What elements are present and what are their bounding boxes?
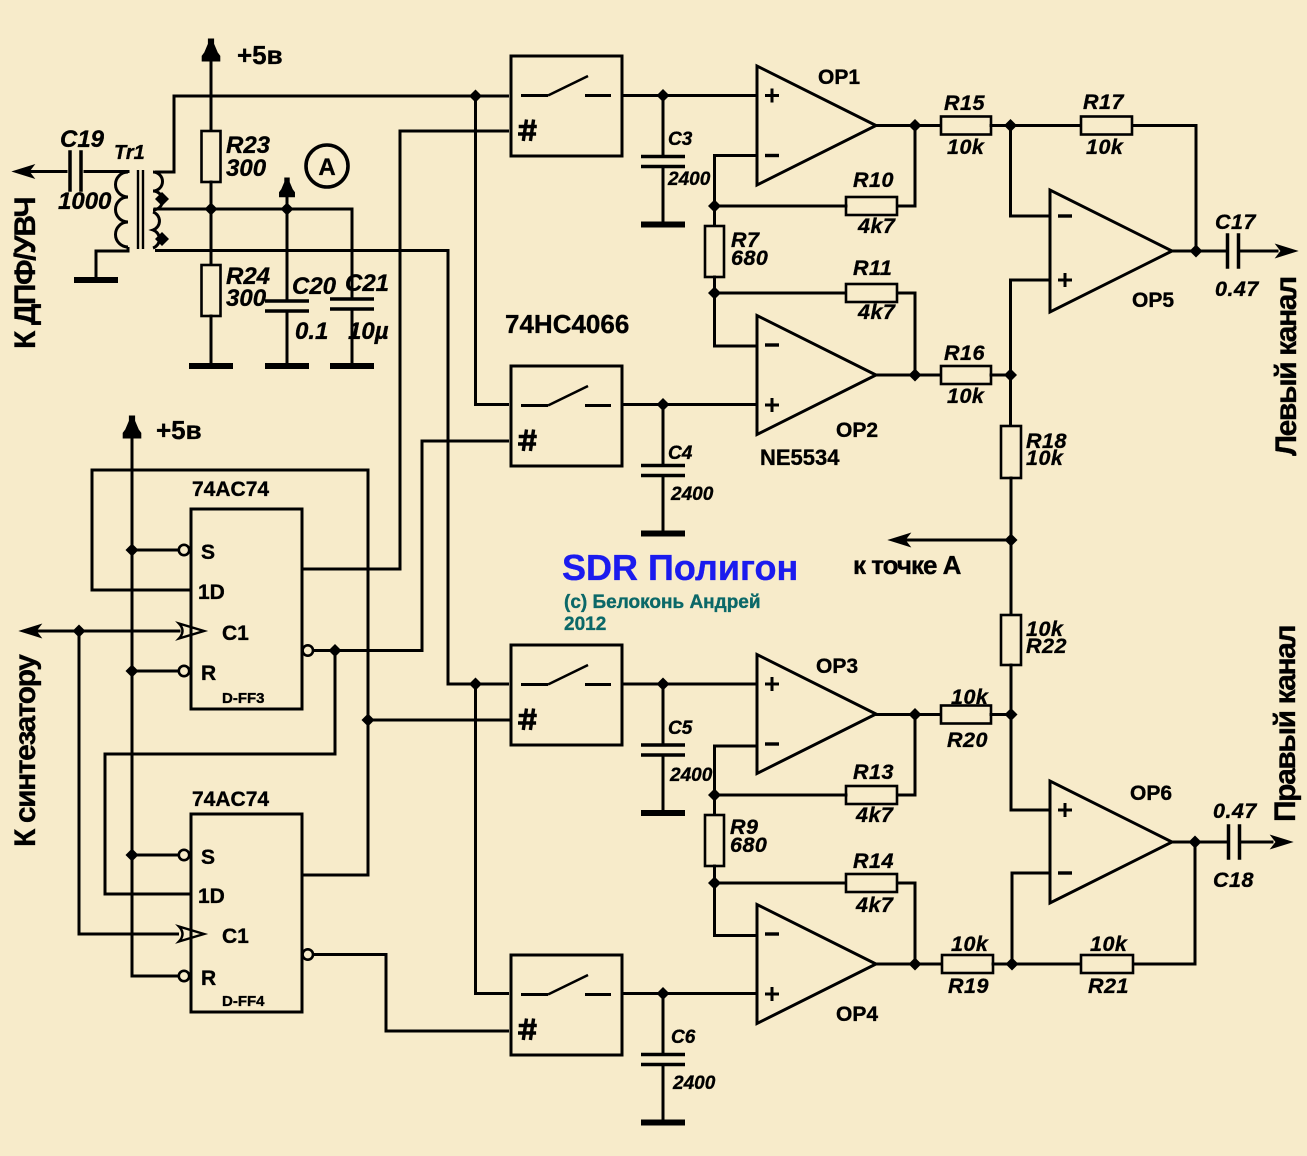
svg-text:К ДПФ/УВЧ: К ДПФ/УВЧ bbox=[9, 197, 42, 349]
node OP3 out bbox=[909, 708, 922, 721]
node OP4 out bbox=[909, 958, 922, 971]
svg-text:680: 680 bbox=[731, 246, 768, 270]
svg-text:R22: R22 bbox=[1026, 634, 1067, 658]
node OP1 out bbox=[909, 119, 922, 132]
wire switch out row C4 bbox=[622, 403, 756, 406]
svg-text:OP1: OP1 bbox=[818, 66, 860, 89]
resistor R21 bbox=[1081, 842, 1195, 973]
node C6 bbox=[657, 987, 670, 1000]
resistor R24 bbox=[202, 265, 221, 316]
svg-text:10k: 10k bbox=[1090, 932, 1128, 956]
pin # control S2 bbox=[518, 430, 537, 452]
op-amp OP1 bbox=[757, 66, 876, 185]
wire FF3 Qbar to switch2 control bbox=[313, 441, 509, 651]
node clock split bbox=[73, 625, 86, 638]
op-amp OP5 bbox=[1050, 190, 1172, 312]
svg-text:0.47: 0.47 bbox=[1215, 277, 1259, 301]
svg-text:10k: 10k bbox=[947, 135, 985, 159]
ground C6 bbox=[641, 1120, 685, 1126]
resistor R18 bbox=[1001, 375, 1021, 540]
svg-text:D-FF3: D-FF3 bbox=[222, 690, 265, 707]
resistor R19 bbox=[942, 955, 1081, 973]
svg-text:S: S bbox=[201, 541, 215, 564]
svg-text:Tr1: Tr1 bbox=[114, 142, 145, 164]
port Правый канал arrow bbox=[1271, 836, 1292, 849]
resistor R23 bbox=[202, 131, 221, 182]
op-amp OP4 bbox=[757, 905, 876, 1024]
capacitor C3 bbox=[641, 96, 685, 222]
pin C1 FF4 dynamic input bbox=[179, 925, 249, 948]
wire OP5 output bbox=[1172, 250, 1226, 253]
resistor R20 bbox=[941, 706, 1011, 724]
wire FF4 Q loop to FF3 1D bbox=[92, 470, 368, 875]
wire switch out row C6 bbox=[622, 992, 756, 995]
wire C19 to Tr1 primary bbox=[85, 170, 128, 173]
svg-text:R: R bbox=[201, 662, 216, 685]
wire к точке А bbox=[902, 539, 1011, 542]
svg-text:4k7: 4k7 bbox=[857, 300, 896, 324]
wire to OP2 inverting input bbox=[715, 293, 757, 346]
transformer Tr1 bbox=[116, 170, 163, 249]
capacitor C20 bbox=[265, 209, 309, 363]
op-amp OP3 bbox=[757, 655, 876, 774]
port Левый канал arrow bbox=[1276, 245, 1297, 258]
resistor R22 bbox=[1001, 540, 1021, 715]
wire input to C19 bbox=[26, 170, 66, 173]
svg-text:C1: C1 bbox=[222, 925, 249, 948]
wire to switch 4 bbox=[476, 684, 510, 994]
node C5 bbox=[657, 678, 670, 691]
wire Tr1 secondary bottom to switches bbox=[155, 251, 509, 685]
node R7 top bbox=[708, 200, 721, 213]
wire OP4 output bbox=[876, 963, 941, 966]
polarity dot secondary bottom bbox=[155, 232, 169, 246]
pin R FF3 bbox=[132, 662, 216, 685]
ground C4 bbox=[641, 531, 685, 537]
svg-text:OP5: OP5 bbox=[1132, 289, 1174, 312]
svg-text:SDR Полигон: SDR Полигон bbox=[562, 547, 798, 588]
wire to OP5 non-inverting input bbox=[1011, 280, 1050, 375]
wire switch out row C5 bbox=[622, 683, 756, 686]
svg-text:300: 300 bbox=[226, 155, 267, 182]
node A marker arrow bbox=[280, 178, 295, 209]
wire OP6 output bbox=[1172, 841, 1227, 844]
resistor R16 bbox=[941, 366, 1011, 384]
node R20 right bbox=[1005, 708, 1018, 721]
svg-text:2400: 2400 bbox=[667, 169, 711, 190]
node C20 point A bbox=[281, 203, 294, 216]
svg-text:0.1: 0.1 bbox=[295, 318, 328, 345]
svg-text:1D: 1D bbox=[198, 885, 225, 908]
svg-text:C5: C5 bbox=[668, 718, 693, 739]
pin R FF4 bbox=[132, 967, 216, 990]
svg-text:10k: 10k bbox=[1086, 135, 1124, 159]
port К ДПФ/УВЧ arrow bbox=[13, 165, 34, 178]
svg-text:+5в: +5в bbox=[237, 40, 283, 70]
node A circle bbox=[306, 145, 348, 187]
svg-text:C6: C6 bbox=[671, 1027, 696, 1048]
svg-text:R21: R21 bbox=[1088, 974, 1129, 998]
svg-text:К синтезатору: К синтезатору bbox=[9, 654, 42, 847]
svg-text:2400: 2400 bbox=[672, 1073, 716, 1094]
svg-text:(c) Белоконь Андрей: (c) Белоконь Андрей bbox=[564, 592, 761, 613]
flip-flop U2 D-FF4 74AC74 bbox=[191, 814, 302, 1012]
svg-text:R11: R11 bbox=[853, 256, 892, 280]
pin # control S1 bbox=[518, 120, 537, 142]
wire Tr1 secondary top to switches bbox=[155, 96, 509, 172]
wire OP3 out down to R13 bbox=[914, 715, 917, 796]
resistor R10 bbox=[715, 197, 916, 215]
resistor R7 bbox=[705, 206, 724, 293]
node S FF4 on rail bbox=[126, 849, 139, 862]
resistor R14 bbox=[715, 874, 916, 964]
svg-text:0.47: 0.47 bbox=[1213, 799, 1257, 823]
op-amp OP6 bbox=[1050, 781, 1172, 903]
wire FF3 Q to switch1 control column bbox=[302, 131, 509, 569]
svg-text:10µ: 10µ bbox=[348, 318, 389, 345]
svg-text:2400: 2400 bbox=[670, 484, 714, 505]
svg-text:R: R bbox=[201, 967, 216, 990]
svg-text:+5в: +5в bbox=[156, 415, 202, 445]
svg-text:10k: 10k bbox=[947, 384, 985, 408]
port к точке А arrow bbox=[889, 534, 910, 547]
svg-text:1D: 1D bbox=[198, 581, 225, 604]
node R16 right bbox=[1004, 369, 1017, 382]
wire FF3 Qbar to FF4 1D bbox=[105, 651, 335, 895]
svg-text:C1: C1 bbox=[222, 622, 249, 645]
wire to OP4 inverting input bbox=[715, 883, 757, 936]
svg-text:10k: 10k bbox=[1026, 446, 1064, 470]
pin S FF3 bbox=[132, 541, 215, 564]
wire to OP6 inverting input bbox=[1012, 873, 1049, 964]
svg-text:C19: C19 bbox=[60, 126, 105, 153]
svg-text:300: 300 bbox=[226, 285, 267, 312]
svg-text:R19: R19 bbox=[948, 974, 989, 998]
svg-text:74HC4066: 74HC4066 bbox=[505, 309, 629, 339]
pin # control S3 bbox=[518, 709, 537, 731]
pin C1 FF3 dynamic input bbox=[179, 622, 249, 645]
svg-text:1000: 1000 bbox=[58, 188, 112, 215]
wire switch out row C3 bbox=[622, 94, 756, 97]
svg-text:R16: R16 bbox=[944, 341, 985, 365]
svg-text:R15: R15 bbox=[944, 91, 985, 115]
wire tap to R24 bbox=[210, 209, 213, 265]
svg-text:4k7: 4k7 bbox=[857, 214, 896, 238]
svg-text:4k7: 4k7 bbox=[855, 803, 894, 827]
node R23 R24 tap bbox=[205, 203, 218, 216]
pin Q-bar FF3 bbox=[303, 645, 313, 655]
svg-text:D-FF4: D-FF4 bbox=[222, 993, 265, 1010]
capacitor C18 bbox=[1229, 826, 1273, 858]
capacitor C17 bbox=[1228, 235, 1278, 267]
wire R24 to ground bbox=[210, 316, 213, 363]
capacitor C6 bbox=[641, 994, 685, 1120]
svg-text:R10: R10 bbox=[853, 168, 894, 192]
wire OP1 output bbox=[876, 124, 941, 127]
node C3 bbox=[657, 89, 670, 102]
pin Q-bar FF4 bbox=[303, 949, 313, 959]
svg-text:74AC74: 74AC74 bbox=[192, 478, 269, 501]
svg-text:Правый канал: Правый канал bbox=[1269, 626, 1302, 822]
capacitor C5 bbox=[641, 684, 685, 810]
ground C5 bbox=[641, 810, 685, 816]
svg-text:OP6: OP6 bbox=[1130, 782, 1172, 805]
node C4 bbox=[657, 398, 670, 411]
ground C3 bbox=[641, 222, 685, 228]
wire center tap bbox=[155, 208, 352, 211]
svg-text:OP2: OP2 bbox=[836, 419, 878, 442]
wire to OP5 inverting input bbox=[1011, 126, 1050, 217]
wire Tr1 primary to ground bbox=[96, 247, 128, 277]
wire OP1 out down to R10 bbox=[914, 126, 917, 207]
flip-flop U1 D-FF3 74AC74 bbox=[191, 509, 302, 709]
node R FF3 on rail bbox=[126, 665, 139, 678]
node R9 bottom bbox=[708, 877, 721, 890]
analog switch S2 74HC4066 section bbox=[511, 366, 622, 466]
capacitor C21 bbox=[330, 209, 374, 363]
wire tap to switch3 control bbox=[368, 719, 509, 722]
wire R23 to tap bbox=[210, 182, 213, 209]
svg-text:2400: 2400 bbox=[669, 765, 713, 786]
node R19 R21 junction bbox=[1006, 958, 1019, 971]
ground C20 bbox=[265, 363, 309, 369]
wire to switch 2 bbox=[476, 96, 510, 405]
node switch3 control tap bbox=[362, 714, 375, 727]
resistor R13 bbox=[715, 786, 916, 804]
node OP5 out bbox=[1190, 245, 1203, 258]
ground primary bbox=[74, 277, 118, 283]
resistor R11 bbox=[715, 284, 916, 375]
node R9 top bbox=[708, 789, 721, 802]
svg-text:680: 680 bbox=[730, 833, 767, 857]
power +5в left arrow bbox=[123, 416, 141, 976]
resistor R17 bbox=[1081, 117, 1196, 252]
analog switch S3 74HC4066 section bbox=[511, 645, 622, 745]
analog switch S1 74HC4066 section bbox=[511, 56, 622, 156]
svg-text:OP4: OP4 bbox=[836, 1003, 878, 1026]
svg-text:C17: C17 bbox=[1215, 210, 1256, 234]
analog switch S4 74HC4066 section bbox=[511, 955, 622, 1055]
svg-text:74AC74: 74AC74 bbox=[192, 788, 269, 811]
svg-text:R13: R13 bbox=[853, 760, 894, 784]
node switch split top bbox=[469, 90, 482, 103]
wire clock line to FF3 C1 bbox=[33, 630, 179, 633]
capacitor C19 bbox=[70, 152, 81, 190]
wire clock to FF4 C1 bbox=[79, 631, 179, 934]
svg-text:C21: C21 bbox=[345, 270, 389, 297]
svg-text:Левый канал: Левый канал bbox=[1270, 277, 1303, 456]
svg-text:R20: R20 bbox=[947, 728, 988, 752]
capacitor C4 bbox=[641, 405, 685, 531]
svg-text:2012: 2012 bbox=[564, 614, 606, 635]
wire OP3 output bbox=[876, 713, 941, 716]
node FF3 Qbar split bbox=[329, 644, 342, 657]
port К синтезатору arrow bbox=[20, 625, 41, 638]
wire to OP6 non-inverting input bbox=[1011, 715, 1049, 811]
svg-text:C4: C4 bbox=[668, 443, 693, 464]
resistor R15 bbox=[941, 117, 1081, 135]
wire to OP1 inverting input bbox=[715, 156, 757, 207]
power +5в top arrow bbox=[202, 39, 220, 131]
node OP2 out bbox=[909, 369, 922, 382]
node point A tap bbox=[1005, 534, 1018, 547]
polarity dot secondary top bbox=[155, 192, 169, 206]
node S FF3 on rail bbox=[126, 544, 139, 557]
resistor R9 bbox=[705, 795, 724, 883]
svg-text:OP3: OP3 bbox=[816, 655, 858, 678]
svg-text:4k7: 4k7 bbox=[855, 893, 894, 917]
ground R24 bbox=[189, 363, 233, 369]
wire OP2 output bbox=[876, 374, 941, 377]
node R7 bottom bbox=[708, 287, 721, 300]
node switch split bottom bbox=[469, 678, 482, 691]
node R15 right bbox=[1004, 119, 1017, 132]
wire to OP3 inverting input bbox=[715, 746, 757, 795]
svg-text:NE5534: NE5534 bbox=[760, 445, 840, 470]
svg-text:R14: R14 bbox=[853, 849, 894, 873]
svg-text:C20: C20 bbox=[292, 273, 337, 300]
ground C21 bbox=[330, 363, 374, 369]
svg-text:к точке А: к точке А bbox=[853, 550, 962, 580]
svg-text:A: A bbox=[318, 154, 335, 181]
svg-text:C18: C18 bbox=[1213, 868, 1254, 892]
node OP6 out bbox=[1189, 836, 1202, 849]
svg-text:C3: C3 bbox=[668, 129, 693, 150]
pin 1D FF3 bbox=[92, 581, 225, 604]
pin # control S4 bbox=[518, 1019, 537, 1041]
wire FF4 Qbar to switch4 control bbox=[313, 955, 509, 1032]
pin S FF4 bbox=[132, 846, 215, 869]
svg-text:10k: 10k bbox=[951, 685, 989, 709]
svg-text:R17: R17 bbox=[1083, 90, 1124, 114]
svg-text:S: S bbox=[201, 846, 215, 869]
svg-text:10k: 10k bbox=[951, 932, 989, 956]
op-amp OP2 bbox=[757, 316, 876, 435]
